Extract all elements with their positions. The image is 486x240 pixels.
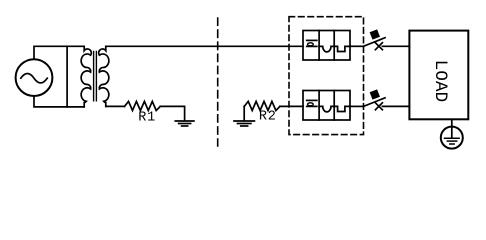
wire F1 to breaker — [350, 45, 364, 47]
wire F2 to breaker — [350, 105, 364, 107]
transformer T1 secondary winding — [99, 46, 109, 106]
dashed enclosure box — [289, 17, 364, 135]
ground (R2) — [234, 121, 254, 126]
dashed boundary line — [217, 18, 219, 146]
resistor R2 — [244, 101, 280, 110]
LOAD box — [409, 31, 468, 120]
transformer T1 primary winding — [81, 46, 91, 107]
sine wave inside source — [21, 74, 47, 83]
breaker CB2 (bottom) — [364, 89, 386, 109]
resistor R1 — [125, 101, 161, 110]
wire secondary top to entrance panel — [106, 45, 303, 47]
AC source V1 — [16, 59, 53, 96]
svg-text:LOAD: LOAD — [430, 60, 450, 102]
svg-text:R1: R1 — [138, 111, 156, 126]
protective earth (circled ground) — [441, 127, 463, 149]
wire secondary bottom to R1 — [106, 105, 125, 107]
wire breaker to load (bottom) — [382, 105, 409, 107]
transformer T1 core — [94, 52, 97, 101]
fuse block F1 (top) — [303, 31, 350, 61]
wire bottom of source — [34, 96, 84, 107]
wire load to protective earth — [451, 119, 453, 138]
wire breaker to load (top) — [382, 45, 409, 47]
wire top of source — [34, 46, 84, 59]
breaker CB1 (top) — [364, 29, 386, 49]
wire R1 to ground — [160, 106, 184, 120]
wire source box right side — [66, 46, 68, 107]
fuse block F2 (bottom) — [303, 91, 350, 121]
wire R2 to fuse block — [280, 105, 303, 107]
wire ground to R2 — [243, 106, 245, 120]
ground (R1) — [175, 121, 194, 126]
svg-text:R2: R2 — [259, 109, 277, 124]
